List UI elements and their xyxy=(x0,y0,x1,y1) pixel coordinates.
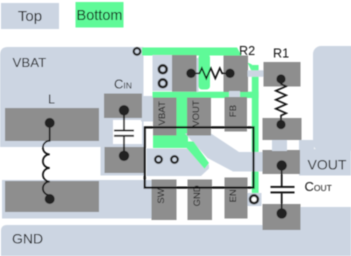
svg-text:L: L xyxy=(48,93,55,107)
node GND copper bar xyxy=(1,225,351,256)
stub R2 to FB xyxy=(229,91,240,98)
node VOUT copper patch under via near EN xyxy=(247,193,262,206)
svg-text:Top: Top xyxy=(18,8,42,25)
svg-text:R2: R2 xyxy=(239,44,255,58)
node VBAT copper patch with vias near R2 xyxy=(153,55,173,91)
stub R2 to R1 xyxy=(248,70,264,77)
IC U1 outline xyxy=(145,127,254,187)
resistor R1 pads xyxy=(263,47,302,141)
capacitor CIN symbol xyxy=(114,110,134,156)
legend Bottom swatch xyxy=(76,2,124,28)
node VOUT diagonal trace from VOUT pin merging into right band xyxy=(185,134,299,172)
stub R1 to COUT xyxy=(272,140,287,151)
resistor R1 terminal dots xyxy=(276,74,285,83)
capacitor COUT symbol xyxy=(271,166,295,214)
svg-text:VOUT: VOUT xyxy=(308,157,347,173)
pin VBAT pad xyxy=(153,98,177,136)
capacitor COUT pads xyxy=(263,150,301,230)
svg-text:VOUT: VOUT xyxy=(191,100,202,127)
bottom layer trace (green) between R2 pads xyxy=(199,54,211,90)
inductor L symbol xyxy=(43,123,50,199)
via V1 xyxy=(134,48,141,55)
node GND bottom-right copper region xyxy=(299,207,351,256)
svg-text:FB: FB xyxy=(228,105,239,117)
legend Top swatch xyxy=(1,3,59,29)
inductor L terminal dots xyxy=(45,118,55,128)
capacitor COUT terminal dots xyxy=(277,160,287,170)
resistor R2 pads xyxy=(172,44,255,92)
svg-text:VBAT: VBAT xyxy=(157,101,168,125)
node SW copper island under L bottom pad xyxy=(2,180,152,219)
inductor L pads xyxy=(5,93,99,213)
node GND copper band left part under U1 with vias xyxy=(147,149,210,177)
svg-text:R1: R1 xyxy=(273,47,289,61)
via V3 xyxy=(159,79,167,87)
bottom layer trace (green) taper at R2 pad corner xyxy=(248,63,252,73)
capacitor CIN terminal dots xyxy=(119,105,129,115)
svg-text:GND: GND xyxy=(12,231,43,247)
bottom layer trace (green) diagonal inside U1 xyxy=(181,142,209,169)
resistor R2 symbol xyxy=(191,68,230,78)
bottom layer trace (green) top bar xyxy=(142,48,242,56)
node VOUT patch connecting R1 to VOUT region xyxy=(299,140,314,152)
via V5 xyxy=(171,156,178,163)
capacitor CIN pads xyxy=(104,77,144,174)
pin GND pad xyxy=(188,180,213,221)
via V2 xyxy=(159,65,167,73)
pin FB pad xyxy=(225,97,248,132)
bottom layer trace (green) between VBAT and VOUT pins xyxy=(153,95,188,148)
bottom layer trace (green) down right side to via xyxy=(252,65,259,193)
pin EN pad xyxy=(225,178,248,219)
pin VOUT pad xyxy=(187,98,211,136)
node VBAT top copper pour xyxy=(0,47,144,147)
via V4 xyxy=(155,156,162,163)
svg-text:EN: EN xyxy=(228,189,239,202)
resistor R2 terminal dots xyxy=(186,69,195,78)
node VOUT band with VOUT label xyxy=(299,149,351,176)
svg-text:COUT: COUT xyxy=(305,179,332,194)
svg-text:SW: SW xyxy=(156,188,167,203)
bottom layer trace (green) band under R2 and pin tops xyxy=(153,92,259,98)
via V6 xyxy=(250,195,258,203)
node VBAT copper island under CIN bottom pad xyxy=(101,144,146,176)
pin SW pad xyxy=(152,180,177,221)
node VOUT right copper region xyxy=(313,46,351,151)
svg-text:VBAT: VBAT xyxy=(13,55,47,70)
resistor R1 symbol xyxy=(276,79,286,125)
node VBAT trace to VBAT pin xyxy=(141,96,153,122)
svg-text:Bottom: Bottom xyxy=(77,8,123,24)
